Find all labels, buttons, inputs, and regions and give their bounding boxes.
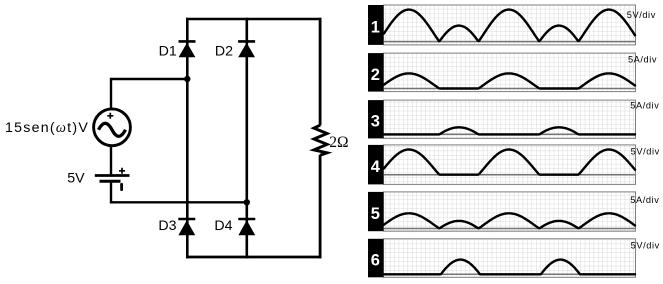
scope panel 1 zero axis: [384, 41, 636, 43]
AC source V1 circle: [94, 109, 131, 146]
svg-text:2Ω: 2Ω: [329, 134, 348, 151]
battery plus polarity mark: [119, 168, 125, 174]
svg-text:5V/div: 5V/div: [631, 146, 660, 156]
wire middle branch vertical (D2/D4): [246, 18, 249, 259]
wire top rail: [186, 18, 321, 21]
scope panel 5 frame and grid: [384, 192, 636, 231]
scope panel 3 frame and grid: [384, 100, 636, 138]
AC source sine symbol: [99, 123, 126, 136]
scope panel 6 zero axis: [384, 273, 636, 275]
svg-text:1: 1: [371, 18, 380, 36]
wire AC source bottom to battery: [110, 145, 112, 174]
AC source value label 15sen(wt)V: [5, 120, 89, 136]
scope panel 4 zero axis: [384, 174, 636, 176]
diode D2 label: [215, 44, 233, 60]
diode D3 label: [158, 218, 176, 234]
scope panel 5 scale label 5A/div: [630, 195, 659, 205]
svg-text:D1: D1: [159, 44, 177, 60]
scope panel 6 waveform trace: [384, 260, 635, 275]
svg-text:D2: D2: [215, 44, 233, 60]
scope panel 2 scale label 5A/div: [628, 55, 657, 65]
diode D3: [178, 219, 195, 235]
resistor value label 2Ω: [329, 134, 348, 151]
diode D4: [238, 219, 255, 235]
diode D1: [179, 41, 196, 57]
svg-text:5V/div: 5V/div: [631, 241, 660, 251]
svg-text:6: 6: [371, 252, 380, 270]
scope panel 4 frame and grid: [384, 145, 636, 185]
scope panel 4 scale label 5V/div: [631, 146, 660, 156]
diode D1 label: [159, 44, 177, 60]
svg-text:2: 2: [371, 66, 380, 84]
scope panel 2 number box: [368, 53, 384, 92]
wire bottom rail: [186, 256, 321, 259]
wire right branch vertical lower (from resistor): [319, 155, 322, 259]
svg-text:3: 3: [371, 113, 380, 131]
scope panel 2 zero axis: [384, 88, 636, 90]
diode D4 label: [214, 218, 232, 234]
wire right branch vertical upper (to resistor): [319, 18, 322, 126]
resistor R1 zigzag: [314, 125, 327, 155]
svg-text:15sen(ωt)V: 15sen(ωt)V: [5, 120, 89, 136]
scope panel 1 waveform trace: [384, 10, 635, 42]
scope panel 2 frame and grid: [384, 53, 636, 92]
scope panel 5 waveform trace: [384, 213, 635, 228]
scope panel 3 waveform trace: [384, 127, 635, 134]
scope panel 1 number box: [368, 5, 384, 45]
battery value label 5V: [67, 170, 85, 186]
scope panel 3 scale label 5A/div: [630, 101, 659, 111]
battery positive plate (long): [95, 174, 130, 177]
svg-text:5A/div: 5A/div: [630, 195, 659, 205]
battery minus polarity mark: [120, 184, 123, 189]
battery negative plate (short): [100, 180, 121, 183]
node B junction dot: [244, 199, 250, 205]
scope panel 6 number box: [368, 239, 384, 277]
scope panel 4 waveform trace: [384, 150, 635, 175]
svg-text:5A/div: 5A/div: [628, 55, 657, 65]
svg-text:4: 4: [371, 158, 381, 176]
svg-text:5V/div: 5V/div: [627, 10, 656, 20]
scope panel 1 frame and grid: [384, 5, 636, 45]
scope panel 3 number box: [368, 100, 384, 138]
diode D2: [238, 41, 255, 57]
scope panel 1 scale label 5V/div: [627, 10, 656, 20]
svg-text:D3: D3: [158, 218, 176, 234]
wire from AC source top to node A: [111, 79, 187, 109]
node A junction dot: [184, 76, 190, 82]
scope panel 6 scale label 5V/div: [631, 241, 660, 251]
svg-text:5: 5: [371, 205, 380, 223]
scope panel 2 waveform trace: [384, 73, 635, 88]
scope panel 4 number box: [368, 145, 384, 185]
scope panel 6 frame and grid: [384, 239, 636, 277]
svg-text:D4: D4: [214, 218, 232, 234]
scope panel 3 zero axis: [384, 133, 636, 135]
wire battery bottom to node B: [111, 183, 247, 203]
AC source plus polarity mark: [107, 113, 113, 119]
svg-text:5A/div: 5A/div: [630, 101, 659, 111]
scope panel 5 zero axis: [384, 228, 636, 230]
scope panel 5 number box: [368, 192, 384, 231]
svg-text:5V: 5V: [67, 170, 85, 186]
wire left branch vertical (D1/D3): [186, 18, 189, 259]
